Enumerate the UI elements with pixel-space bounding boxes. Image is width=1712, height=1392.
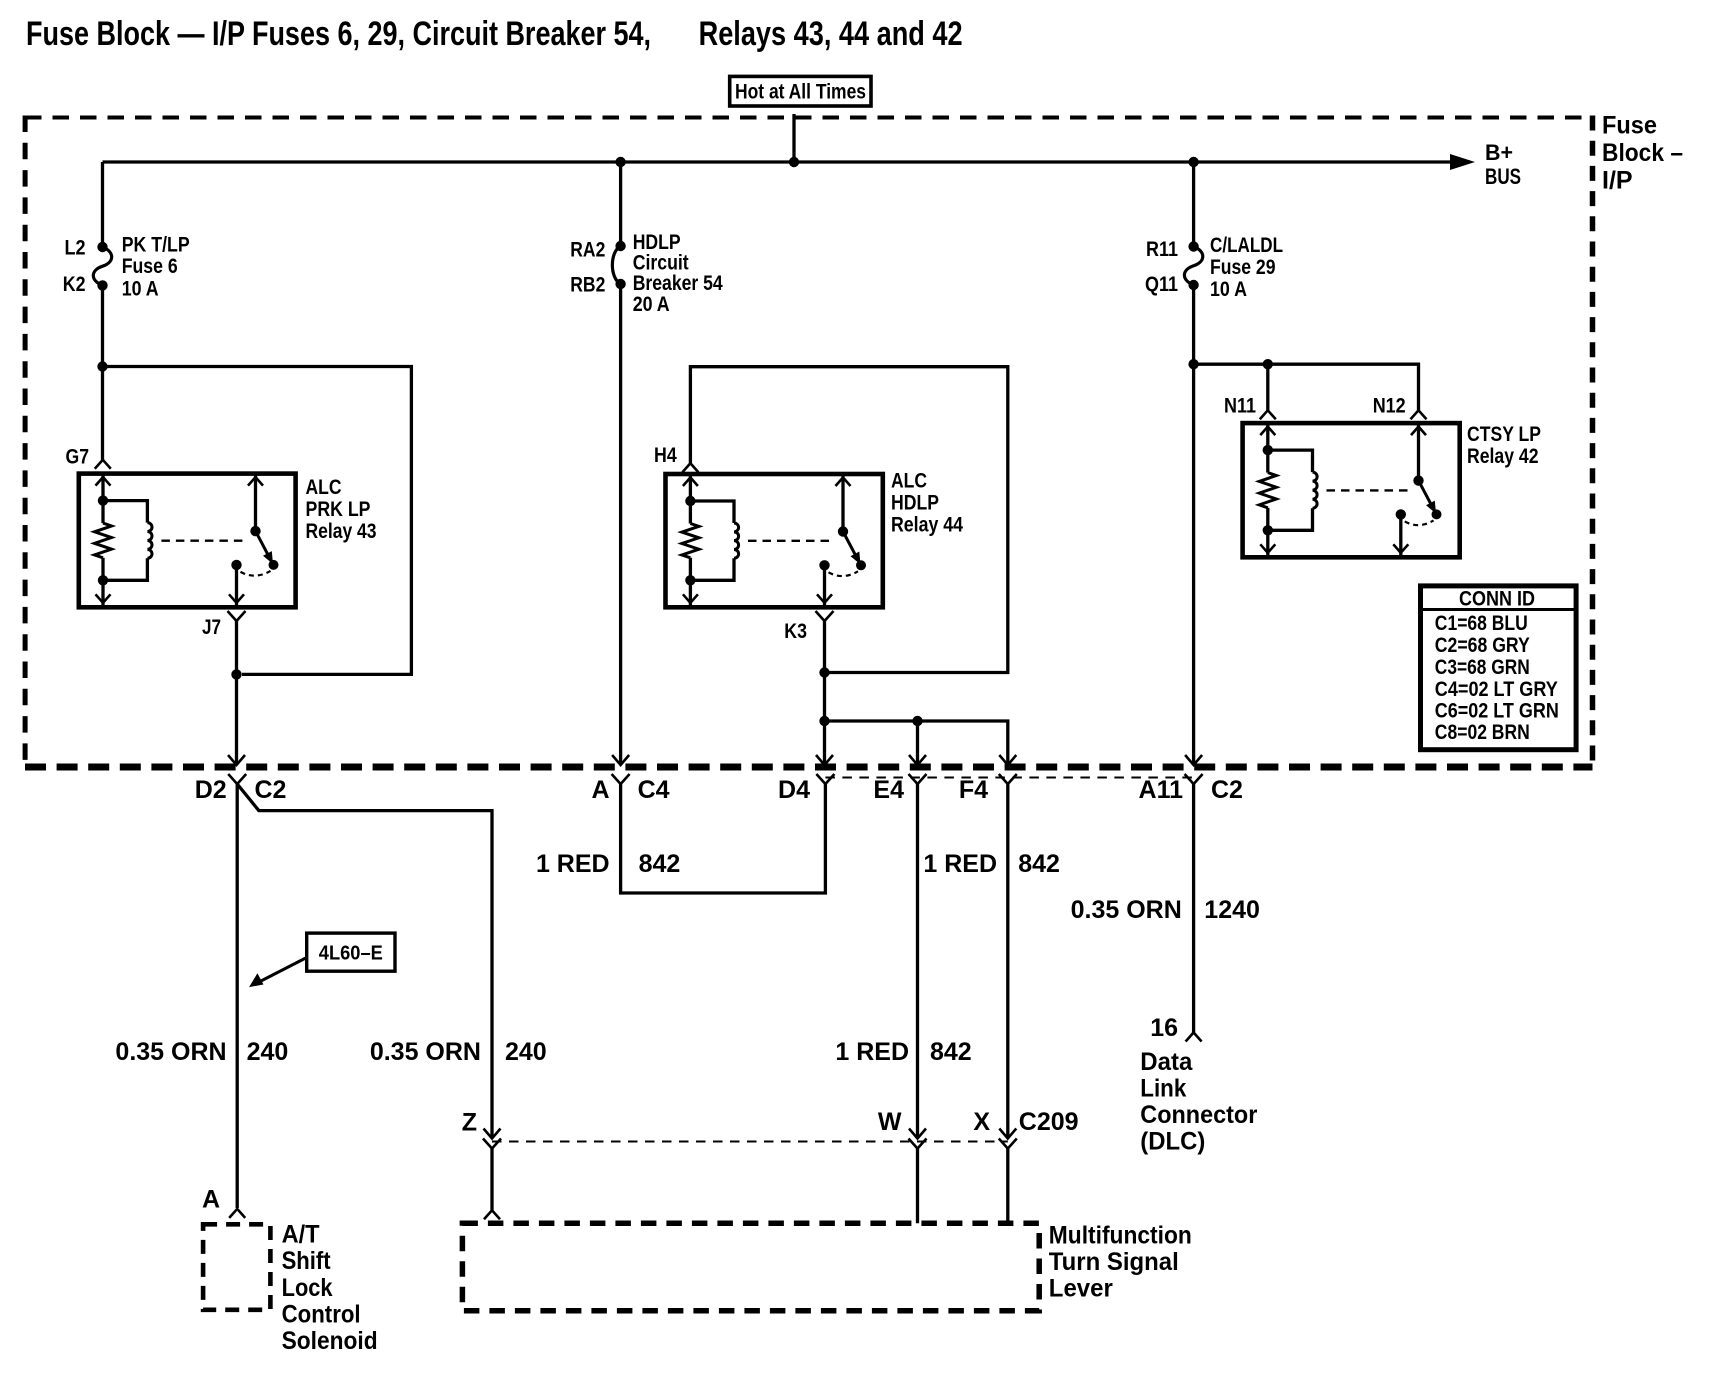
svg-text:1 RED: 1 RED xyxy=(923,850,997,878)
svg-text:F4: F4 xyxy=(959,776,988,804)
svg-text:A: A xyxy=(592,776,610,804)
wire: J7 lead down to connector row xyxy=(235,621,238,764)
svg-text:N12: N12 xyxy=(1373,395,1406,418)
pin H4 connector chevron xyxy=(682,463,698,472)
fuse F29 (C/LALDL Fuse 29 10A) element xyxy=(1184,247,1202,286)
svg-text:A/T: A/T xyxy=(282,1221,320,1249)
wire: A11 to DLC (0.35 ORN 1240) xyxy=(1192,784,1195,1033)
junction: K3 lead to E4/F4 branch xyxy=(819,716,829,726)
relay K44 internals: coil, resistor, switch xyxy=(689,474,692,501)
arrowhead at connector row (D4) xyxy=(816,755,833,765)
svg-text:G7: G7 xyxy=(66,446,90,469)
svg-text:B+: B+ xyxy=(1485,140,1513,165)
node: Hot at All Times feed box xyxy=(730,76,871,106)
wire: bus drop to fuse 6 xyxy=(101,162,104,247)
svg-text:Multifunction: Multifunction xyxy=(1049,1222,1192,1250)
wire: E4 drop to connector row xyxy=(916,721,919,764)
svg-text:RA2: RA2 xyxy=(570,239,605,262)
svg-text:C1=68 BLU: C1=68 BLU xyxy=(1435,612,1528,635)
svg-text:842: 842 xyxy=(1018,850,1060,878)
pin Q11 terminal dot xyxy=(1188,280,1198,290)
svg-text:C2=68 GRY: C2=68 GRY xyxy=(1435,634,1530,657)
svg-text:4L60–E: 4L60–E xyxy=(319,943,383,965)
svg-text:PK T/LP: PK T/LP xyxy=(122,234,190,257)
svg-text:Relays 43, 44 and 42: Relays 43, 44 and 42 xyxy=(699,15,963,53)
svg-text:Hot at All Times: Hot at All Times xyxy=(735,81,866,104)
svg-text:BUS: BUS xyxy=(1485,164,1521,189)
svg-text:240: 240 xyxy=(505,1038,547,1066)
wire: D2 to A/T shift lock solenoid (0.35 ORN 240) xyxy=(236,784,239,1208)
pin 16 male connector chevron at DLC xyxy=(1186,1033,1202,1042)
wire: breaker 54 down to connector row (A/C4) xyxy=(619,284,622,764)
svg-text:Q11: Q11 xyxy=(1145,273,1178,296)
svg-text:C4=02 LT GRY: C4=02 LT GRY xyxy=(1435,678,1558,701)
svg-text:0.35 ORN: 0.35 ORN xyxy=(1071,896,1182,924)
connector A11/C2 Y xyxy=(1185,774,1203,784)
wire: N11 drop xyxy=(1266,364,1269,410)
connector A/C4 Y xyxy=(612,774,630,784)
relay K44 box (ALC HDLP Relay 44) xyxy=(666,474,883,607)
svg-text:Solenoid: Solenoid xyxy=(282,1327,378,1355)
connector D4 Y xyxy=(816,774,834,784)
svg-text:D4: D4 xyxy=(778,776,810,804)
relay K43 box (ALC PRK LP Relay 43) xyxy=(79,474,296,608)
svg-text:Fuse 6: Fuse 6 xyxy=(122,255,178,278)
junction: bus to breaker drop xyxy=(615,157,625,167)
svg-text:Lever: Lever xyxy=(1049,1274,1113,1302)
svg-text:Fuse Block — I/P Fuses 6, 29,: Fuse Block — I/P Fuses 6, 29, Circuit Br… xyxy=(26,15,651,53)
svg-text:Relay 42: Relay 42 xyxy=(1467,445,1539,468)
connector F4 Y xyxy=(999,774,1017,784)
pin RB2 terminal dot xyxy=(615,279,625,289)
svg-text:10 A: 10 A xyxy=(1210,278,1247,301)
svg-text:Relay 44: Relay 44 xyxy=(891,514,963,537)
wire: B+ bus horizontal xyxy=(103,160,1453,163)
svg-text:0.35 ORN: 0.35 ORN xyxy=(370,1038,481,1066)
connector X arrow + Y xyxy=(999,1129,1016,1139)
svg-text:Breaker 54: Breaker 54 xyxy=(633,272,723,295)
svg-text:Turn Signal: Turn Signal xyxy=(1049,1248,1179,1276)
svg-text:Block –: Block – xyxy=(1602,139,1683,167)
fuse F6 (PK T/LP Fuse 6 10A) element xyxy=(93,247,111,285)
svg-text:C8=02 BRN: C8=02 BRN xyxy=(1435,721,1530,744)
svg-text:C2: C2 xyxy=(255,776,287,804)
junction: fuse6 output node xyxy=(97,361,107,371)
svg-text:J7: J7 xyxy=(202,616,221,639)
svg-text:E4: E4 xyxy=(873,776,904,804)
junction: N11 branch xyxy=(1263,359,1273,369)
4L60-E callout arrow xyxy=(259,958,307,983)
wire: fuse 6 to junction xyxy=(101,285,104,366)
wire: relay 44 switch feed loop (up, across, down to K3 line) xyxy=(690,367,1007,673)
connector Z arrow + Y xyxy=(484,1129,501,1139)
pin N12 connector chevron xyxy=(1411,410,1427,419)
svg-text:(DLC): (DLC) xyxy=(1140,1128,1205,1156)
male chevron at A/T solenoid (A) xyxy=(229,1209,245,1218)
svg-text:842: 842 xyxy=(930,1038,972,1066)
wire: C2 split diagonal to Z drop xyxy=(237,784,492,1137)
svg-text:20 A: 20 A xyxy=(633,293,670,316)
svg-text:C4: C4 xyxy=(638,776,670,804)
junction: bus to fuse 29 drop xyxy=(1188,157,1198,167)
svg-text:W: W xyxy=(878,1108,902,1136)
relay K43 internals: coil, resistor, switch xyxy=(101,474,104,501)
wire: fuse 29 down to connector row (A11) xyxy=(1192,285,1195,764)
svg-text:L2: L2 xyxy=(65,237,86,260)
junction: relay43 feed loop joins J7 lead xyxy=(231,669,241,679)
wire: E4 down to W (1 RED 842) xyxy=(916,784,919,1137)
svg-text:ALC: ALC xyxy=(891,470,927,493)
fuse block I/P dashed boundary right xyxy=(1590,116,1596,770)
pin L2 terminal dot xyxy=(97,242,107,252)
pin RA2 terminal dot xyxy=(615,241,625,251)
svg-text:Fuse 29: Fuse 29 xyxy=(1210,256,1276,279)
svg-text:R11: R11 xyxy=(1146,238,1178,261)
connector W arrow + Y xyxy=(909,1129,926,1139)
svg-text:240: 240 xyxy=(247,1038,289,1066)
junction: hot feed on bus xyxy=(789,157,799,167)
pin K2 terminal dot xyxy=(97,280,107,290)
relay K42 box (CTSY LP Relay 42) xyxy=(1243,423,1460,557)
svg-text:1240: 1240 xyxy=(1204,896,1260,924)
svg-text:Link: Link xyxy=(1140,1075,1186,1103)
CONN ID legend table xyxy=(1421,586,1577,750)
connector C209 thin dashed line Z..X xyxy=(492,1141,1008,1143)
svg-text:K2: K2 xyxy=(63,273,86,296)
svg-text:H4: H4 xyxy=(654,444,677,467)
wire: G7 lead down to relay 43 xyxy=(101,367,104,460)
wire: X into multifunction lever xyxy=(1006,1149,1009,1224)
wire: W into multifunction lever xyxy=(916,1149,919,1224)
svg-text:0.35 ORN: 0.35 ORN xyxy=(115,1038,226,1066)
B+ BUS arrowhead xyxy=(1450,154,1475,170)
male chevron at multifunction lever (Z) xyxy=(484,1210,500,1219)
junction: E4 drop xyxy=(912,716,922,726)
connector D2/C2 Y xyxy=(228,774,246,784)
arrowhead at connector row (D2) xyxy=(228,755,245,765)
svg-text:Data: Data xyxy=(1140,1048,1193,1076)
wire: A/C4 loop to D4 (1 RED 842) xyxy=(621,784,826,893)
fuse block I/P dashed boundary left xyxy=(23,116,28,770)
svg-text:N11: N11 xyxy=(1224,395,1256,418)
arrowhead at connector row (A/C4) xyxy=(612,755,629,765)
svg-text:C/LALDL: C/LALDL xyxy=(1210,234,1283,257)
svg-text:Connector: Connector xyxy=(1140,1101,1257,1129)
arrowhead at connector row (F4) xyxy=(999,755,1016,765)
wire: F4 down to X (1 RED 842) xyxy=(1006,784,1009,1137)
svg-text:Shift: Shift xyxy=(282,1247,332,1275)
wire: bus drop to fuse 29 xyxy=(1192,162,1195,247)
relay K42 internals: coil, resistor, switch xyxy=(1266,423,1269,450)
svg-text:842: 842 xyxy=(639,850,681,878)
arrowhead at connector row (E4) xyxy=(909,755,926,765)
wire: relay 43 switch feed loop (right, down, to J7 line) xyxy=(103,367,412,675)
svg-text:X: X xyxy=(973,1108,990,1136)
svg-text:A11: A11 xyxy=(1139,776,1184,804)
svg-text:Relay 43: Relay 43 xyxy=(306,520,377,543)
multifunction turn signal lever dashed box xyxy=(462,1223,1039,1310)
wire: Z to multifunction lever xyxy=(490,1149,493,1211)
svg-text:C209: C209 xyxy=(1019,1108,1079,1136)
wire: K3 lead down to connector row (D4) xyxy=(823,621,826,764)
svg-text:C3=68 GRN: C3=68 GRN xyxy=(1435,656,1530,679)
wire: relay 42 feed (across to N11 / N12) xyxy=(1194,364,1419,410)
wire: bus drop to circuit breaker 54 xyxy=(619,162,622,246)
svg-text:Fuse: Fuse xyxy=(1602,112,1657,140)
svg-text:CTSY LP: CTSY LP xyxy=(1467,423,1541,446)
svg-text:Control: Control xyxy=(282,1300,361,1328)
svg-text:ALC: ALC xyxy=(306,476,342,499)
svg-text:D2: D2 xyxy=(195,776,227,804)
arrowhead at connector row (A11) xyxy=(1185,755,1202,765)
junction: relay44 feed loop joins K3 lead xyxy=(819,667,829,677)
junction: fuse29 output to relay 42 feed xyxy=(1188,359,1198,369)
pin G7 connector chevron xyxy=(95,460,111,469)
svg-text:1 RED: 1 RED xyxy=(835,1038,909,1066)
svg-text:K3: K3 xyxy=(784,620,807,643)
pin N11 connector chevron xyxy=(1260,410,1276,419)
svg-text:10 A: 10 A xyxy=(122,278,159,301)
circuit breaker CB54 element xyxy=(612,246,620,284)
pin J7 connector Y below relay 43 xyxy=(228,611,246,621)
fuse block I/P dashed boundary bottom (connector row) xyxy=(25,764,1593,771)
connector E4 Y xyxy=(909,774,927,784)
svg-text:HDLP: HDLP xyxy=(891,492,939,515)
fuse block I/P dashed boundary top xyxy=(25,116,1593,120)
svg-text:A: A xyxy=(202,1186,220,1214)
4L60-E callout box xyxy=(307,933,395,971)
pin R11 terminal dot xyxy=(1188,241,1198,251)
svg-text:I/P: I/P xyxy=(1602,167,1633,195)
svg-text:C2: C2 xyxy=(1211,776,1243,804)
svg-text:C6=02 LT GRN: C6=02 LT GRN xyxy=(1435,700,1559,723)
svg-text:1 RED: 1 RED xyxy=(536,850,610,878)
svg-text:16: 16 xyxy=(1150,1014,1178,1042)
svg-text:Z: Z xyxy=(462,1109,477,1137)
A/T shift lock control solenoid dashed box xyxy=(203,1224,270,1310)
svg-text:CONN ID: CONN ID xyxy=(1459,588,1535,611)
svg-text:RB2: RB2 xyxy=(570,273,605,296)
thin dashed connector line D4..A11 xyxy=(825,777,1193,779)
svg-text:Lock: Lock xyxy=(282,1274,333,1302)
svg-text:PRK LP: PRK LP xyxy=(306,498,371,521)
pin K3 connector Y below relay 44 xyxy=(816,611,834,621)
wire: branch to E4 and F4 drops xyxy=(825,721,1008,764)
wire: Hot at All Times drop to bus xyxy=(792,114,795,162)
